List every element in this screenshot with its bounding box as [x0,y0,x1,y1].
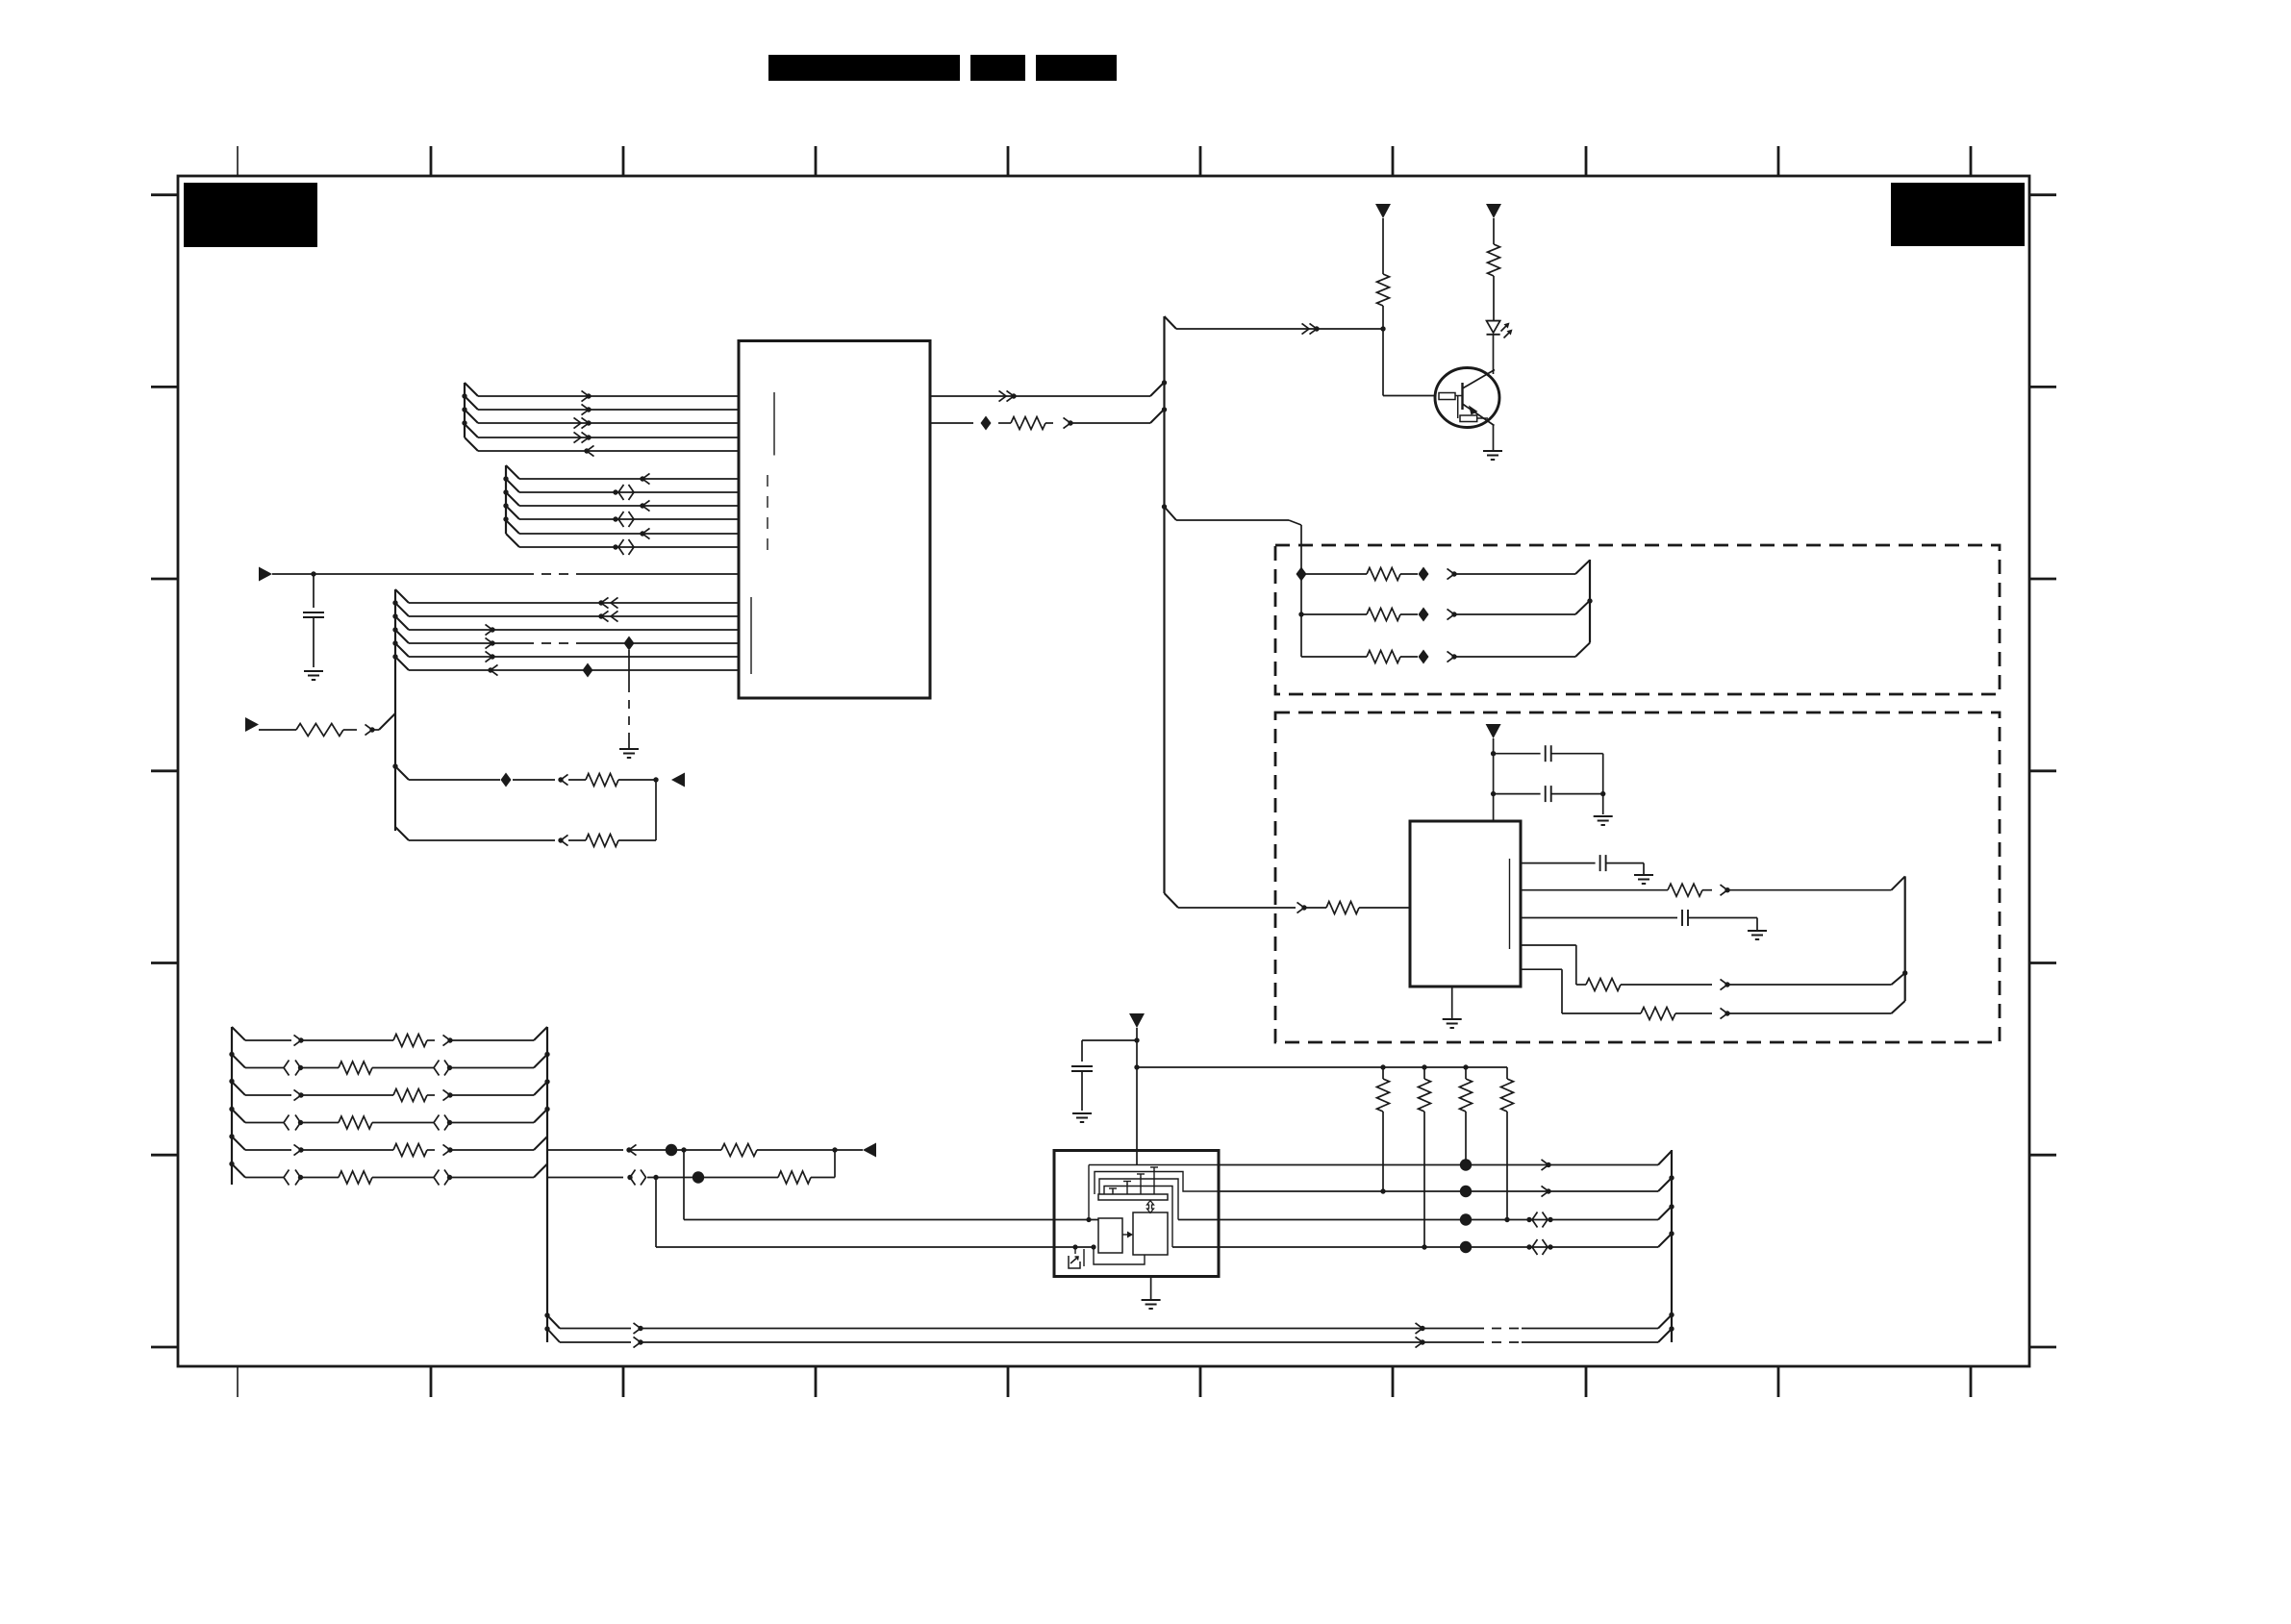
U3 internal block B [1133,1212,1168,1255]
diamond tap on line7 [501,773,512,787]
resistor R13 on U2 out5 [1521,969,1712,1019]
bus B3 (right bundle) [1669,1150,1674,1342]
bus gather for U1 input group 3 [392,589,409,831]
wire U1 input 1.1 [478,390,739,401]
dashed enclosure (supply block 2) [1275,712,2000,1042]
U3 internal rail 2 [1095,1172,1219,1195]
wire long net 2 (ladder bus to B3) [560,1329,1672,1348]
bus gather right (resistor ladder output) [534,1027,560,1342]
power symbol VCC3 [1486,724,1501,738]
wire net J1 to U1 [272,571,739,576]
capacitor C6 [1071,1040,1137,1111]
wire U1 input 3.3 [409,624,739,635]
wire R13 to bus B2 [1721,1001,1905,1019]
diamond tap at block1 feed [1297,567,1307,582]
wire U1 input 2.2 [519,485,739,500]
U3 internal rail 3 [1099,1179,1219,1220]
wire VCC3 to U2 [1491,738,1496,821]
pull-down (dashed) to ground from input 3.4 [628,650,630,748]
wire node A to R5/Q1 node [1165,316,1386,335]
resistor R2 [586,774,618,787]
resistor R11 on U2 out2 [1521,884,1712,896]
wire node A to U2 input [1165,893,1327,913]
pull-up feed rail [1137,1064,1507,1069]
input marker J2 (signal from other sheet) [245,717,259,732]
U3 internal transistor T1 [1150,1167,1158,1194]
capacitor C2 [1494,745,1603,762]
U3 internal transistor T4 [1109,1188,1117,1194]
wire long net 1 (ladder bus to B3) [560,1315,1672,1335]
resistor R21 ladder row 4 [245,1115,534,1131]
ground for U2 [1443,1018,1462,1020]
U3 internal rail 1 [1086,1165,1219,1223]
resistor R10 [1326,902,1359,914]
wire R1 to bus [365,713,396,736]
bus gather for U1 input group 1 [462,383,478,451]
U3 internal logic symbol [1069,1244,1145,1268]
ground for C6 [1072,1112,1092,1114]
wire U3 net3 to bus B3 [1219,1207,1672,1228]
wire SCL drop to U3 [656,1178,1094,1248]
input marker J3 [671,773,685,787]
wire U1 input 2.3 [519,500,739,511]
transistor Q1 (digital transistor) [1435,368,1499,428]
LED D1 [1487,321,1513,338]
power symbol VCC2 [1486,204,1501,218]
power symbol VCC1 [1375,204,1391,218]
pull-up resistor R15 [1419,1067,1431,1247]
wire ladder row6 tap [547,1170,778,1186]
ground for C5 [1748,930,1767,932]
node A (vertical net right of U1) [1162,316,1167,893]
wire SDA drop to U3 [684,1150,1098,1220]
resistor R9 [1301,651,1418,663]
wire ladder row5 to J4 [547,1144,721,1156]
dashed enclosure (resistor pack block 1) [1275,545,2000,694]
wire U1 input 3.5 [409,651,739,662]
resistor R23 ladder row 6 [245,1170,534,1186]
resistor R6 [1488,218,1500,320]
wire R24 to J4 [757,1147,863,1152]
U3 internal transistor T3 [1123,1182,1131,1195]
wire VCC4 to U3 [1134,1028,1139,1165]
bus B1 (block1 output bundle) [1587,560,1592,643]
resistor R1 [259,724,357,737]
wire R8 to bus B1 [1419,601,1591,622]
resistor R18 ladder row 1 [245,1035,534,1047]
capacitor C3 [1494,786,1606,802]
wire U1 input 2.6 [519,539,739,555]
ground for C2/C3 [1594,815,1613,817]
resistor R7 [1301,568,1418,581]
wire Q1 emitter to ground [1493,425,1495,451]
wire U3 net4 to bus B3 [1219,1234,1672,1255]
capacitor C5 on U2 out3 [1521,910,1757,930]
title text (redacted bar 2) [970,55,1025,81]
pull-up resistor R17 [1501,1067,1514,1220]
capacitor C4 on U2 out1 [1521,855,1644,874]
resistor R24 [721,1144,757,1157]
U3 ground pin wire [1150,1277,1152,1300]
IC U2 (box) [1410,821,1521,987]
ground for U3 [1142,1299,1161,1301]
wire U1 input 2.5 [519,528,739,538]
wire U3 net2 to bus B3 [1219,1178,1672,1197]
IC U1 (main processor, box) [739,341,930,699]
diamond tap on input 3.6 [583,663,593,678]
wire R9 to bus B1 [1419,643,1591,664]
wire U2 ground pin [1451,987,1453,1018]
wire U1 input 3.2 [409,611,739,621]
resistor R3 [586,835,618,847]
bus B2 (block2 output bundle) [1902,876,1907,1001]
arrow on line8 [558,835,567,845]
junction dots column (test points) [1380,1159,1509,1253]
wire node A to resistor block [1165,507,1302,574]
wire U1 input 2.1 [519,473,739,484]
power symbol VCC4 [1129,1013,1145,1028]
resistor R20 ladder row 3 [245,1089,534,1102]
wire U1 input 1.3 [478,417,739,428]
wire U3 net1 to bus B3 [1219,1151,1672,1170]
wire U1 input 3.4 [409,637,739,648]
U3 internal register bar [1098,1194,1168,1200]
wire net line7 (bus to J3) [395,766,659,783]
sheet label top-left (redacted) [184,183,317,247]
wire caps common to ground [1602,754,1604,814]
U3 internal bus arrow [1147,1201,1154,1213]
title text (redacted bar 1) [768,55,960,81]
wire R11 to bus B2 [1721,876,1905,895]
ground for Q1 [1483,450,1502,452]
resistor R4 [930,417,1053,430]
wire U1 input 3.6 [409,664,739,675]
U3 internal rail 4 [1104,1187,1219,1248]
ground for C1 [304,670,323,672]
resistor R12 on U2 out4 [1521,945,1712,991]
bus gather for U1 input group 2 [503,465,519,547]
arrow on line7 [558,774,567,785]
input marker J4 [863,1143,876,1158]
capacitor C1 [303,574,324,667]
input marker J1 (signal from other sheet) [259,567,272,582]
resistor R19 ladder row 2 [245,1061,534,1076]
U3 internal transistor T2 [1137,1174,1145,1194]
diamond tap on input 3.4 [624,637,635,651]
wire U1 input 1.5 [478,445,739,456]
title text (redacted bar 3) [1036,55,1117,81]
ground for C4 [1634,874,1653,876]
wire R10 to U2 [1359,907,1410,909]
pull-up resistor R14 [1377,1067,1390,1191]
wire R25 up to row5 [811,1150,835,1178]
IC U3 (EEPROM, box) [1054,1151,1219,1277]
wire U1 input 3.1 [409,597,739,608]
wire U1 input 1.2 [478,404,739,414]
resistor R5 [1377,218,1390,329]
feed net inside block 1 [1300,574,1302,657]
wire U1 input 1.4 [478,432,739,442]
pull-up resistor R16 [1460,1067,1473,1164]
resistor R22 ladder row 5 [245,1144,534,1157]
wire line8 loop (bus to line7) [395,780,656,840]
bus gather left (resistor ladder input) [229,1027,245,1185]
resistor R8 [1301,609,1418,621]
ground for input 3.4 tap [619,748,639,750]
wire U1 output 1 (to node A) [930,383,1164,402]
wire R4 to node A [1064,410,1165,429]
resistor R25 [778,1171,811,1184]
wire R7 to bus B1 [1419,561,1591,582]
wire U1 input 2.4 [519,512,739,527]
wire to Q1 base [1383,329,1436,396]
U3 internal arrow A to B [1122,1232,1133,1238]
wire D1 to Q1 collector [1493,335,1495,374]
wire R12 to bus B2 [1721,973,1905,990]
diamond tap on U1 output 2 [981,416,992,431]
U3 internal block A [1098,1218,1122,1253]
sheet label top-right (redacted) [1891,183,2025,246]
